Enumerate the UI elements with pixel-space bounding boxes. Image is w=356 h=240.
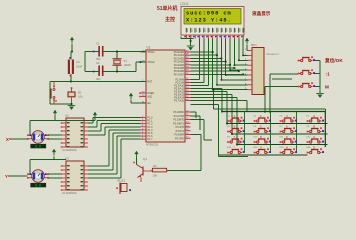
svg-text:P3.7/RD: P3.7/RD bbox=[175, 137, 184, 140]
wire P0.6 horizontal bbox=[191, 70, 239, 72]
pin end U2 left y=143 bbox=[61, 142, 63, 144]
ground reset bbox=[68, 106, 76, 110]
wire Y to motor2 bbox=[9, 175, 28, 177]
svg-text:10k: 10k bbox=[78, 95, 83, 99]
wire P1.4 horizontal bbox=[109, 129, 141, 131]
wire VCC to C3 bbox=[70, 52, 72, 60]
keypad column 1 wire bbox=[244, 112, 246, 153]
wire P1.1 drop bbox=[96, 121, 98, 127]
wire P2.6 feeder bbox=[191, 97, 238, 99]
wire end Y bbox=[8, 175, 10, 177]
wire motor1 top link bbox=[30, 120, 95, 122]
junction D3/P0.3 bbox=[225, 61, 227, 63]
wire caps rail to C2 bbox=[85, 71, 98, 73]
wire P3.2 stub bbox=[191, 119, 205, 121]
wire power to RP1 pin1 bbox=[246, 45, 248, 51]
wire P1.3 horizontal bbox=[105, 126, 141, 128]
pin end U3 left y=170 bbox=[61, 169, 63, 171]
svg-text:U1: U1 bbox=[147, 46, 151, 50]
junction feeder x=237 bbox=[236, 144, 238, 146]
svg-text:ULN2003A: ULN2003A bbox=[62, 148, 77, 152]
wire power motor1 stem bbox=[54, 117, 56, 121]
wire LCD jog bottom bbox=[181, 38, 194, 40]
pin end PSEN bbox=[139, 92, 141, 94]
wire P2.7 drop to frame bbox=[246, 101, 248, 112]
button K1 bbox=[298, 56, 315, 61]
svg-text:C3: C3 bbox=[76, 60, 80, 64]
wire LCD gnd drop bbox=[190, 39, 192, 46]
resistor pack RP1 RESPACK-8 bbox=[245, 43, 280, 95]
svg-text:液晶显示: 液晶显示 bbox=[252, 10, 271, 17]
capacitor C1 30p bbox=[96, 42, 104, 62]
wire motor1 out A bbox=[48, 134, 63, 136]
keypad button 5 bbox=[254, 127, 271, 132]
buzzer BUZ1 bbox=[116, 179, 131, 195]
wire aux feeder bbox=[191, 104, 219, 106]
wire P3.1 drop bbox=[199, 116, 201, 130]
junction LCD gnd bbox=[190, 40, 192, 42]
keypad button A bbox=[307, 117, 324, 122]
red mark near Q1 bbox=[133, 162, 135, 164]
power VCC reset bbox=[70, 37, 74, 44]
keypad row 2 wire bbox=[232, 133, 328, 135]
wire P1.0 horizontal bbox=[93, 117, 141, 119]
wire K3 left bbox=[265, 86, 298, 88]
wire K3 to gnd rail bbox=[315, 86, 320, 88]
wire P3.2 link bbox=[204, 139, 212, 141]
svg-text:EA: EA bbox=[148, 102, 152, 105]
power U2 bbox=[93, 112, 97, 119]
wire RP1 pin4 bbox=[234, 64, 247, 66]
wire mesh drop long bbox=[213, 90, 215, 109]
svg-text:C2: C2 bbox=[96, 61, 100, 65]
wire aux feeder drop bbox=[218, 105, 220, 157]
svg-text:LCD1: LCD1 bbox=[180, 2, 189, 6]
resistor R2 10k bbox=[153, 164, 167, 178]
wire LCD ctrl 0 vertical bbox=[199, 39, 201, 80]
junction mesh drop bbox=[213, 89, 215, 91]
junction RP1 pin2 bbox=[242, 55, 244, 57]
wire P2.7 long feeder bbox=[191, 100, 248, 102]
wire RP1 pin5 bbox=[230, 69, 247, 71]
wire P3.6 buzzer feeder bbox=[191, 134, 201, 136]
wire P1.1 to U2 pin bbox=[88, 126, 97, 128]
keypad column 2 wire bbox=[270, 112, 272, 153]
svg-text:P0.7/AD7: P0.7/AD7 bbox=[174, 73, 185, 76]
pin end U2 left y=147 bbox=[61, 146, 63, 148]
keypad button # bbox=[280, 148, 297, 153]
keypad frame right wire bbox=[324, 112, 326, 148]
wire motor2 out B bbox=[48, 177, 63, 179]
svg-text:X: X bbox=[6, 137, 9, 142]
wire P1.3 drop bbox=[104, 127, 106, 135]
wire feeder drop x=222 bbox=[221, 89, 223, 112]
wire P0.5 horizontal bbox=[191, 67, 235, 69]
svg-text:X1: X1 bbox=[124, 59, 128, 63]
wire EA to MCU bbox=[131, 102, 146, 104]
junction feeder x=227 bbox=[226, 123, 228, 125]
wire reset left drop bbox=[49, 82, 51, 105]
pin end U3 left y=186 bbox=[61, 185, 63, 187]
wire P0.0 horizontal bbox=[191, 51, 213, 53]
svg-text:R2: R2 bbox=[153, 164, 157, 168]
junction reset gnd node bbox=[71, 103, 73, 105]
wire reset bottom bbox=[50, 103, 72, 105]
wire P2.3 feeder bbox=[191, 88, 223, 90]
wire D3 vertical bbox=[225, 39, 227, 76]
wire RST net bbox=[50, 81, 146, 83]
keypad button 0 bbox=[254, 148, 271, 153]
wire motor2 top link bbox=[30, 159, 66, 161]
capacitor C2 30p bbox=[96, 61, 104, 81]
wire RP1 pin6 bbox=[226, 74, 248, 76]
junction D6/P0.6 bbox=[238, 70, 240, 72]
svg-text:P3.6/WR: P3.6/WR bbox=[174, 134, 184, 137]
junction D0/P0.0 bbox=[212, 51, 214, 53]
junction crystal bottom bbox=[116, 71, 118, 73]
wire P1.7 drop bbox=[120, 139, 122, 178]
svg-text:51单片机: 51单片机 bbox=[157, 5, 178, 12]
wire buzzer drop bbox=[200, 135, 202, 171]
svg-text:XTAL1: XTAL1 bbox=[148, 51, 156, 54]
wire upper link corner bbox=[324, 109, 326, 112]
wire buzzer horizontal bbox=[167, 170, 201, 172]
wire RP1 pin9 bbox=[213, 89, 248, 91]
pin mark C2 bbox=[93, 71, 95, 73]
wire motor2 left drop bbox=[29, 160, 31, 175]
wire D7 vertical bbox=[242, 39, 244, 56]
resistor R1 10k bbox=[68, 87, 83, 104]
wire K2 to gnd rail bbox=[315, 73, 320, 75]
ground below LCD bbox=[187, 46, 195, 50]
wire power to U2 rail bbox=[94, 119, 96, 121]
keypad button 4 bbox=[227, 127, 244, 132]
keypad button D bbox=[307, 148, 324, 153]
svg-text:12MHz: 12MHz bbox=[124, 64, 133, 67]
wire P2.2 horizontal bbox=[191, 85, 209, 87]
wire caps rail to C1 bbox=[85, 51, 98, 53]
MCU U1 AT89C51 body bbox=[146, 46, 185, 151]
wire D6 vertical bbox=[238, 39, 240, 61]
svg-text:22uF: 22uF bbox=[76, 65, 83, 69]
wire K3 drop bbox=[264, 87, 266, 114]
wire P1.5 to U3 pin bbox=[88, 169, 113, 171]
wire P2.5 feeder bbox=[191, 94, 233, 96]
stepper motor bbox=[27, 170, 49, 188]
junction XTAL2 bbox=[140, 61, 142, 63]
svg-text:RESPACK-8: RESPACK-8 bbox=[267, 53, 280, 56]
wire P1.3 to U2 pin bbox=[88, 134, 105, 136]
wire RP1 pin2 bbox=[243, 54, 247, 56]
wire LCD jog left bbox=[180, 37, 182, 39]
keypad button 1 bbox=[227, 117, 244, 122]
MCU right pin labels bbox=[173, 51, 184, 140]
wire P3.1 stub bbox=[191, 115, 201, 117]
wire P0.4 horizontal bbox=[191, 64, 231, 66]
junction D2/P0.2 bbox=[221, 58, 223, 60]
keypad button 9 bbox=[280, 138, 297, 143]
wire P1.2 drop bbox=[100, 124, 102, 131]
LCD display LCD1 LM016L bbox=[180, 2, 245, 35]
wire feeder drop x=237 bbox=[236, 98, 238, 145]
wire P1.5 drop bbox=[112, 133, 114, 170]
wire P3.2 drop bbox=[203, 120, 205, 141]
wire K2 left bbox=[270, 73, 298, 75]
junction feeder x=222 bbox=[221, 111, 223, 113]
svg-text:P3.2/INT0: P3.2/INT0 bbox=[173, 119, 184, 122]
driver IC U3 ULN2003A bbox=[62, 157, 88, 196]
svg-text:P3.5/T1: P3.5/T1 bbox=[176, 130, 185, 133]
wire P1.4 to U3 pin bbox=[88, 165, 109, 167]
wire P1.4 drop bbox=[108, 130, 110, 166]
wire D1 vertical bbox=[216, 39, 218, 85]
junction crystal top bbox=[116, 51, 118, 53]
wire VCC down bbox=[71, 44, 73, 52]
pin end ALE bbox=[139, 96, 141, 98]
junction RP1 pin4 bbox=[234, 64, 236, 66]
keypad button B bbox=[307, 127, 324, 132]
junction D4/P0.4 bbox=[229, 64, 231, 66]
ground buttons bbox=[316, 94, 324, 98]
wire XTAL2 riser bbox=[135, 62, 137, 72]
wire P1.1 horizontal bbox=[97, 120, 141, 122]
wire P3.0 stub bbox=[191, 111, 197, 113]
wire RP1 pin1 stub bbox=[246, 50, 249, 52]
keypad row 4 wire bbox=[219, 154, 308, 156]
pin mark C1 bbox=[93, 51, 95, 53]
pin end U3 left y=182 bbox=[61, 181, 63, 183]
svg-text:succ:098 cm: succ:098 cm bbox=[186, 11, 232, 17]
driver IC U2 ULN2003A bbox=[62, 114, 88, 153]
svg-text:A: A bbox=[313, 114, 315, 118]
keypad column 3 wire bbox=[296, 112, 298, 153]
keypad button C bbox=[307, 138, 324, 143]
keypad button 3 bbox=[280, 117, 297, 122]
svg-text:P2.7/A15: P2.7/A15 bbox=[174, 100, 185, 103]
svg-text:↑1: ↑1 bbox=[325, 72, 330, 77]
wire power to Q1 collector bbox=[136, 158, 138, 165]
keypad row 3 wire bbox=[237, 144, 328, 146]
pin end U2 left y=131 bbox=[61, 130, 63, 132]
power EA bbox=[129, 93, 133, 100]
wire RP1 pin3 bbox=[239, 59, 248, 61]
junction RP1 pin7 bbox=[221, 79, 223, 81]
wire C3 to RST node bbox=[70, 74, 72, 82]
LCD pins bbox=[184, 35, 243, 39]
svg-text:RP1: RP1 bbox=[251, 43, 257, 47]
junction VCC node bbox=[71, 51, 73, 53]
wire P1.0 to U2 pin bbox=[88, 122, 93, 124]
svg-text:主控: 主控 bbox=[165, 16, 175, 23]
svg-text:XTAL2: XTAL2 bbox=[148, 61, 156, 64]
svg-text:30p: 30p bbox=[96, 77, 101, 81]
svg-text:0.0: 0.0 bbox=[35, 144, 41, 148]
keypad button 2 bbox=[254, 117, 271, 122]
power RP1 bbox=[245, 38, 249, 45]
red mark above motor1 bbox=[55, 100, 57, 102]
svg-text:X:123 Y:45.: X:123 Y:45. bbox=[186, 18, 232, 24]
keypad button 7 bbox=[227, 138, 244, 143]
wire P1.2 horizontal bbox=[101, 123, 141, 125]
junction RP1 pin3 bbox=[238, 60, 240, 62]
pin end U2 left y=123 bbox=[61, 122, 63, 124]
wire keypad bottom ext bbox=[219, 156, 248, 158]
power Q1 bbox=[135, 151, 139, 158]
button K3 bbox=[298, 82, 315, 87]
junction D5/P0.5 bbox=[234, 67, 236, 69]
svg-text:P3.4/T0: P3.4/T0 bbox=[176, 126, 185, 129]
red mark R2 left bbox=[151, 170, 153, 172]
wire XTAL2 to MCU bbox=[136, 61, 146, 63]
capacitor C3 electrolytic 22uF bbox=[68, 57, 83, 77]
svg-text:C1: C1 bbox=[96, 42, 100, 46]
wire P0.1 horizontal bbox=[191, 54, 218, 56]
junction RP1 pin9 bbox=[212, 89, 214, 91]
junction RP1 pin5 bbox=[229, 69, 231, 71]
svg-text:ULN2003A: ULN2003A bbox=[62, 191, 77, 195]
wire motor1 out B bbox=[48, 138, 63, 140]
junction RP1 pin6 bbox=[225, 74, 227, 76]
pin end U3 left y=190 bbox=[61, 189, 63, 191]
power U3 bbox=[52, 149, 56, 156]
wire P1.2 to U2 pin bbox=[88, 130, 101, 132]
wire D2 vertical bbox=[220, 39, 222, 80]
crystal X1 bbox=[113, 59, 133, 67]
svg-text:Y: Y bbox=[5, 174, 8, 179]
keypad button 8 bbox=[254, 138, 271, 143]
keypad row 1 wire bbox=[227, 123, 328, 125]
wire motor2 out A bbox=[48, 173, 63, 175]
wire aux thin bbox=[272, 78, 292, 80]
keypad frame top wire bbox=[222, 111, 325, 113]
wire feeder drop x=227 bbox=[226, 92, 228, 124]
reset button bbox=[51, 82, 55, 105]
wire RP1 pin8 bbox=[217, 84, 248, 86]
wire end X bbox=[9, 138, 11, 140]
MCU pin stubs bbox=[141, 50, 191, 139]
wire LCD ctrl 2 vertical bbox=[207, 39, 209, 86]
svg-text:B: B bbox=[313, 124, 315, 128]
keypad button 6 bbox=[280, 127, 297, 132]
svg-text:Q1: Q1 bbox=[143, 157, 147, 161]
junction feeder x=232 bbox=[231, 133, 233, 135]
wire LCD ctrl 1 vertical bbox=[203, 39, 205, 83]
wire C1 to XTAL1 bbox=[104, 51, 147, 53]
wire P1.5 horizontal bbox=[113, 132, 141, 134]
wire P1.7 to U3 pin bbox=[88, 177, 121, 179]
wire P2.4 feeder bbox=[191, 91, 228, 93]
wire P0.7 horizontal bbox=[191, 73, 244, 75]
svg-text:M: M bbox=[325, 85, 329, 90]
wire power to U3 area bbox=[53, 157, 55, 160]
wire buttons gnd rail bbox=[319, 61, 321, 94]
svg-text:ALE: ALE bbox=[148, 96, 153, 99]
wire K1 to gnd rail bbox=[315, 60, 320, 62]
svg-text:P3.0/RXD: P3.0/RXD bbox=[173, 111, 184, 114]
wire P2.0 horizontal bbox=[191, 79, 200, 81]
svg-text:复位/OK: 复位/OK bbox=[324, 57, 343, 64]
wire P1.6 drop bbox=[116, 136, 118, 174]
wire P1.6 horizontal bbox=[117, 135, 141, 137]
wire P0.2 horizontal bbox=[191, 57, 222, 59]
stepper motor bbox=[27, 131, 49, 149]
MCU left pin labels bbox=[148, 51, 156, 141]
red mark R2 right bbox=[166, 170, 168, 172]
junction D7/P0.7 bbox=[242, 74, 244, 76]
pin end U2 left y=127 bbox=[61, 126, 63, 128]
wire P0.3 horizontal bbox=[191, 61, 226, 63]
power motor1 rail bbox=[53, 110, 57, 117]
wire feeder drop x=232 bbox=[231, 95, 233, 135]
junction RST node bbox=[70, 81, 72, 83]
pin end U3 left y=166 bbox=[61, 165, 63, 167]
wire D4 vertical bbox=[229, 39, 231, 71]
wire C2 right bbox=[104, 71, 137, 73]
wire RP1 pin7 bbox=[221, 79, 247, 81]
wire crystal bottom bbox=[116, 65, 118, 71]
wire EA riser bbox=[130, 100, 132, 103]
transistor Q1 bbox=[137, 157, 153, 182]
wire crystal top bbox=[116, 52, 118, 59]
svg-text:AT89C51: AT89C51 bbox=[146, 143, 159, 147]
svg-text:0.0: 0.0 bbox=[35, 183, 41, 187]
wire P2.1 horizontal bbox=[191, 82, 204, 84]
wire P1.7 horizontal bbox=[121, 138, 141, 140]
button K2 bbox=[298, 69, 315, 74]
junction RP1 pin8 bbox=[216, 84, 218, 86]
wire caps common rail bbox=[84, 52, 86, 72]
junction D1/P0.1 bbox=[216, 54, 218, 56]
wire P1.6 to U3 pin bbox=[88, 173, 117, 175]
svg-text:U2: U2 bbox=[65, 114, 69, 118]
svg-text:BUZ1: BUZ1 bbox=[118, 179, 126, 183]
wire X to motor1 bbox=[10, 138, 28, 140]
svg-text:RST: RST bbox=[148, 81, 153, 84]
wire D5 vertical bbox=[233, 39, 235, 66]
svg-text:10k: 10k bbox=[153, 174, 158, 178]
wire D0 vertical bbox=[212, 39, 214, 90]
wire P3.0 drop bbox=[195, 112, 197, 118]
svg-text:P1.7: P1.7 bbox=[148, 138, 154, 141]
wire upper keypad link bbox=[214, 108, 326, 110]
wire P1.0 drop bbox=[92, 118, 94, 124]
svg-text:P3.3/INT1: P3.3/INT1 bbox=[173, 122, 184, 125]
svg-text:P3.1/TXD: P3.1/TXD bbox=[174, 115, 185, 118]
keypad button * bbox=[227, 148, 244, 153]
wire K2 drop bbox=[269, 74, 271, 113]
wire motor1 left drop bbox=[29, 121, 31, 136]
